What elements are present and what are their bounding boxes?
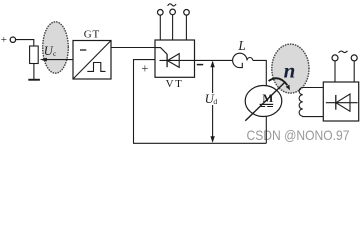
- svg-text:+: +: [1, 34, 7, 46]
- thyristor gate: [155, 48, 167, 55]
- wiper arrow wire to GT: [45, 59, 73, 61]
- M underline: [260, 103, 274, 105]
- field diode main line: [326, 102, 358, 104]
- block VT (thyristor rectifier): [155, 40, 195, 77]
- wire phase 2: [172, 15, 174, 40]
- wire resistor to ground: [33, 64, 35, 80]
- AC tilde above VT: [168, 4, 177, 6]
- GT pulse symbol: [87, 63, 105, 72]
- wire VT plus stub: [133, 59, 155, 61]
- speed shaft arrow through motor: [245, 83, 284, 121]
- AC terminal circle 1: [158, 10, 164, 16]
- dashed ellipse around n: [272, 44, 309, 93]
- svg-text:VT: VT: [166, 78, 184, 90]
- wire field phase 2: [353, 61, 355, 82]
- thyristor main line: [160, 59, 195, 61]
- wire coil top to rectifier: [303, 87, 323, 89]
- field diode triangle: [336, 94, 350, 111]
- feedback left wire: [133, 60, 135, 144]
- block GT: [73, 41, 111, 80]
- svg-text:CSDN @NONO.97: CSDN @NONO.97: [247, 127, 350, 143]
- wire L to motor: [253, 60, 266, 85]
- svg-text:d: d: [213, 97, 217, 106]
- wire phase 3: [185, 15, 187, 40]
- wire terminal to potentiometer: [16, 40, 34, 46]
- wire coil bottom to rectifier: [303, 115, 323, 117]
- field diode cathode bar: [335, 95, 337, 110]
- wire field phase 1: [334, 61, 336, 82]
- field terminal circle 2: [351, 55, 357, 61]
- resistor RP (potentiometer body): [30, 46, 39, 64]
- svg-text:GT: GT: [84, 29, 100, 41]
- field terminal circle 1: [332, 55, 338, 61]
- wire GT to VT gate: [111, 47, 155, 49]
- block field rectifier: [323, 82, 358, 121]
- M underline 2: [260, 106, 273, 108]
- wire phase 1: [159, 15, 161, 40]
- ground: [28, 79, 40, 81]
- motor M circle: [245, 86, 282, 117]
- AC terminal circle 3: [184, 10, 190, 16]
- label minus at VT output: [197, 64, 203, 66]
- svg-text:L: L: [237, 38, 245, 53]
- GT diagonal: [73, 41, 111, 80]
- AC tilde above field: [339, 51, 348, 53]
- input terminal circle: [10, 37, 15, 42]
- feedback bottom wire: [133, 142, 266, 144]
- svg-text:+: +: [141, 61, 148, 75]
- rotation arrow n: [269, 78, 288, 85]
- field winding coil: [299, 88, 303, 117]
- AC terminal circle 2: [170, 9, 176, 15]
- GT minus sign: [80, 49, 86, 51]
- thyristor triangle: [167, 54, 179, 68]
- dashed ellipse around Uc: [43, 22, 69, 73]
- Ud measuring arrow (double headed): [212, 62, 214, 141]
- thyristor cathode bar: [166, 54, 168, 67]
- svg-text:n: n: [284, 58, 296, 82]
- wire VT to L: [195, 59, 233, 61]
- inductor L (loop reactor): [233, 53, 247, 60]
- wire motor bottom: [265, 116, 267, 143]
